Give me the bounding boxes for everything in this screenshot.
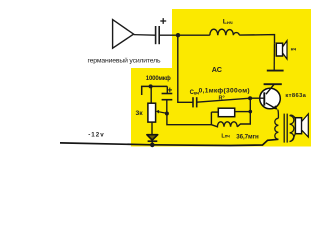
node C junction dot	[149, 84, 153, 88]
wire node A to L1	[178, 34, 210, 36]
label германиевый усилитель	[88, 57, 161, 65]
label Cvch	[190, 90, 200, 96]
transistor Q1 emitter lead with arrow	[266, 103, 278, 110]
label Lpch	[221, 133, 230, 139]
capacitor C1	[156, 26, 160, 44]
svg-text:3к: 3к	[136, 110, 144, 117]
label -12v	[88, 132, 104, 139]
highlight region main	[172, 9, 311, 147]
wire node A down to C3	[178, 35, 193, 102]
svg-text:-12v: -12v	[88, 132, 104, 139]
capacitor C2 1000mkf electrolytic	[162, 86, 173, 113]
wire L1 to top right corner	[239, 35, 274, 44]
loudspeaker SP2	[295, 114, 308, 137]
wire diode branch	[151, 122, 153, 134]
label AC	[212, 65, 222, 74]
transformer T1 primary winding	[275, 118, 279, 139]
transformer T1 core	[284, 114, 287, 143]
wire R2 right to node	[235, 111, 251, 113]
node A junction dot	[176, 33, 180, 37]
wire node C down to R1	[150, 86, 152, 103]
svg-text:кт863а: кт863а	[285, 93, 306, 99]
wire tank right side	[237, 98, 250, 127]
power rail -12v	[60, 139, 278, 145]
label nch	[291, 48, 297, 53]
resistor R1 3k	[148, 103, 156, 122]
wire bracket to R2 left	[211, 111, 218, 113]
transformer T1 secondary winding	[290, 116, 294, 142]
node D wiper junction dot	[165, 112, 169, 116]
transistor Q1 circle	[260, 88, 281, 109]
op-amp U1 germanium amplifier triangle	[113, 20, 134, 49]
wire secondary to SP2 bottom	[290, 133, 296, 141]
node F junction dot	[249, 110, 253, 114]
resistor R2	[218, 108, 234, 117]
svg-text:36,7мгн: 36,7мгн	[236, 133, 259, 140]
wire C1 to node A	[159, 34, 178, 36]
svg-text:Lпч: Lпч	[221, 133, 230, 139]
wire secondary to SP2 top	[290, 115, 296, 119]
wire emitter down to transformer	[277, 110, 280, 119]
wire through speaker down to chassis	[273, 43, 275, 70]
plus polarity mark of C1	[160, 18, 166, 24]
svg-text:нч: нч	[291, 48, 297, 53]
label kt863a	[285, 93, 306, 99]
label 0,1mkf 300om	[199, 87, 250, 94]
wire amp output to C1	[134, 34, 155, 37]
svg-text:1000мкф: 1000мкф	[146, 75, 171, 82]
label 1000mkf	[146, 75, 171, 82]
wire base node to Q1	[250, 97, 264, 99]
wire wiper to tank circuit	[167, 112, 212, 125]
inductor L1 Lnch	[210, 29, 239, 35]
highlight region left extension	[131, 68, 173, 147]
label 36,7mgn	[236, 133, 259, 140]
label R	[219, 96, 225, 102]
node E rail junction dot	[150, 143, 155, 148]
plus polarity mark of C2	[168, 88, 172, 93]
wire bias branch top	[142, 86, 168, 95]
wire C3 to base node	[197, 98, 250, 102]
svg-text:0,1мкф(300ом): 0,1мкф(300ом)	[199, 87, 250, 94]
transistor Q1 collector lead	[266, 84, 274, 94]
loudspeaker SP1	[276, 41, 287, 59]
transistor Q1 base bar	[263, 92, 265, 105]
inductor L2 Lpch	[211, 122, 237, 127]
capacitor C3	[193, 97, 197, 107]
svg-text:АС: АС	[212, 65, 222, 74]
node B base junction dot	[248, 96, 252, 100]
potentiometer wiper arrow	[156, 110, 167, 114]
svg-text:германиевый усилитель: германиевый усилитель	[88, 57, 161, 65]
diode D1	[147, 135, 158, 145]
chassis bar under SP1	[267, 70, 284, 72]
label Lnch	[223, 19, 233, 27]
chassis bar above transistor collector	[264, 83, 282, 85]
label 3k	[136, 110, 144, 117]
